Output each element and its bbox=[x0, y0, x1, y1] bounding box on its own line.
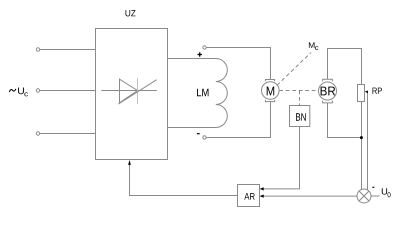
label minus at summing input bbox=[372, 186, 374, 188]
controlled-rectifier symbol: diode triangle bbox=[120, 79, 138, 103]
wire: AC input phase 1 bbox=[36, 48, 95, 51]
smoothing reactor LM coil loop bbox=[168, 59, 228, 128]
controlled-rectifier symbol: control diagonal bbox=[118, 80, 156, 104]
wire: - rail to motor bbox=[206, 102, 270, 138]
summing element X diagonal 2 bbox=[359, 191, 369, 201]
label UZ bbox=[126, 10, 136, 16]
regulator AR box bbox=[238, 185, 260, 207]
arrowhead into AR upper input bbox=[260, 187, 264, 190]
wire: junction down to summing unit bbox=[361, 138, 363, 190]
wire: AC input phase 2 bbox=[36, 89, 95, 92]
wire: RP wiper down to summing unit bbox=[367, 93, 369, 190]
dashed shaft coupling M to BR bbox=[279, 90, 318, 92]
label + polarity bbox=[198, 52, 202, 56]
label LM bbox=[197, 89, 209, 96]
motor M top brush bbox=[265, 80, 274, 82]
label Uc U bbox=[18, 88, 24, 95]
controlled-rectifier symbol: cathode bar bbox=[137, 78, 139, 104]
label AR bbox=[244, 193, 254, 200]
wire: + rail to motor bbox=[206, 48, 270, 80]
RP wiper arrow bbox=[365, 90, 368, 93]
label Uc subscript c bbox=[24, 92, 28, 96]
BR bottom brush bbox=[323, 101, 333, 103]
label BN bbox=[296, 113, 306, 120]
DC - terminal bbox=[203, 136, 206, 139]
summing element circle bbox=[357, 189, 371, 203]
arrowhead into UZ control input bbox=[128, 160, 131, 165]
controlled-rectifier symbol inside UZ: anode line bbox=[101, 90, 156, 92]
label M bbox=[267, 87, 275, 96]
arrowhead into AR lower input bbox=[260, 195, 264, 198]
label BR bbox=[321, 87, 336, 96]
junction dot at RP bottom bbox=[360, 136, 363, 139]
label U0 subscript 0 bbox=[388, 192, 391, 197]
summing element X diagonal 1 bbox=[359, 191, 369, 201]
potentiometer RP body bbox=[358, 85, 365, 102]
wire: U0 stub bbox=[371, 195, 380, 197]
wire: summing output to AR bbox=[262, 195, 357, 197]
dashed link to BN bbox=[299, 91, 301, 107]
label U0 U bbox=[382, 188, 387, 194]
wire: BN output down and to AR bbox=[262, 127, 300, 189]
DC + terminal bbox=[203, 46, 206, 49]
dashed load-torque line to Mc bbox=[277, 53, 311, 86]
wire: AC input phase 3 bbox=[36, 132, 95, 135]
label RP bbox=[373, 88, 382, 94]
voltage sensor BN box bbox=[290, 106, 310, 127]
rectifier UZ box bbox=[96, 29, 168, 160]
motor M circle bbox=[262, 82, 280, 100]
label ~ of source bbox=[9, 89, 16, 92]
label Mc M bbox=[309, 42, 315, 48]
wire: BR bottom to junction bbox=[328, 103, 362, 138]
tachogenerator BR circle bbox=[319, 82, 337, 100]
wire: RP bottom bbox=[361, 102, 363, 138]
motor M bottom brush bbox=[265, 100, 274, 102]
label Mc subscript c bbox=[315, 46, 318, 50]
wire: AR output to UZ control input bbox=[130, 164, 238, 196]
BR top brush bbox=[323, 79, 333, 81]
wire: BR top to rail and RP bbox=[328, 49, 362, 85]
label - polarity bbox=[197, 133, 200, 135]
